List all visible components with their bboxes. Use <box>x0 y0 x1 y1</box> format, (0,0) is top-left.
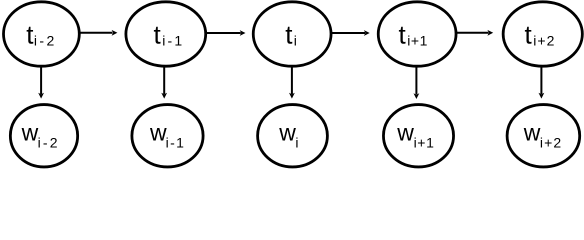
arrow t_i-2 to w_i-2 <box>38 66 44 99</box>
arrow t_i to w_i <box>289 66 295 99</box>
svg-text:i+2: i+2 <box>533 32 555 48</box>
svg-text:i-2: i-2 <box>34 32 57 48</box>
svg-text:t: t <box>154 19 162 49</box>
svg-text:w: w <box>149 120 167 146</box>
arrow t_i-2 to t_i-1 <box>80 30 118 36</box>
node w_i <box>258 105 328 167</box>
node t_i-2 <box>4 2 80 66</box>
svg-text:t: t <box>525 19 533 49</box>
svg-text:i: i <box>294 32 297 48</box>
svg-text:i+1: i+1 <box>414 134 435 150</box>
svg-text:w: w <box>21 120 39 146</box>
arrow t_i to t_i+1 <box>331 30 370 36</box>
node w_i+1 <box>383 105 453 167</box>
arrow t_i+1 to w_i+1 <box>414 66 420 100</box>
svg-text:w: w <box>396 120 414 146</box>
svg-text:i+1: i+1 <box>407 32 428 48</box>
svg-text:w: w <box>523 120 541 146</box>
arrow t_i-1 to t_i <box>206 30 245 36</box>
svg-text:t: t <box>285 19 293 49</box>
svg-text:i-1: i-1 <box>162 32 184 48</box>
node t_i+1 <box>378 2 456 66</box>
svg-text:t: t <box>399 19 407 49</box>
node w_i+2 <box>507 105 580 167</box>
svg-text:i+2: i+2 <box>540 134 562 150</box>
arrow t_i-1 to w_i-1 <box>161 66 167 99</box>
svg-text:i-2: i-2 <box>38 134 60 150</box>
svg-text:i-1: i-1 <box>166 134 186 150</box>
node t_i+2 <box>503 2 582 66</box>
svg-text:w: w <box>278 120 296 146</box>
arrow t_i+1 to t_i+2 <box>456 30 493 36</box>
node t_i <box>253 2 331 66</box>
node w_i-2 <box>10 105 77 167</box>
node t_i-1 <box>126 2 206 66</box>
svg-text:i: i <box>295 134 298 150</box>
arrow t_i+2 to w_i+2 <box>539 66 545 99</box>
node w_i-1 <box>132 105 203 167</box>
